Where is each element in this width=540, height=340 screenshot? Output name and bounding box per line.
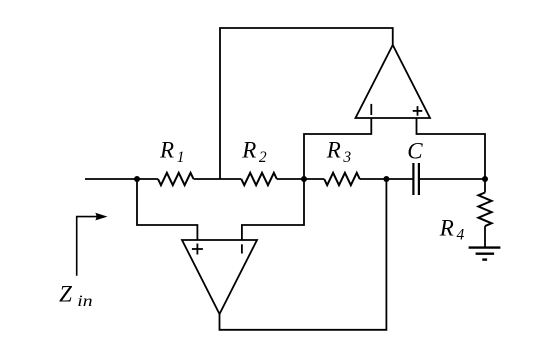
resistor R2 <box>241 137 277 185</box>
wire: U2 non-inverting input down-right to node D <box>417 118 486 179</box>
wire: feedback from op-amp U2 output to R1-R2 node <box>220 28 393 179</box>
node B (R2-R3 junction) <box>301 176 307 182</box>
svg-text:C: C <box>407 138 423 163</box>
op-amp U1 (bottom) <box>182 240 257 314</box>
op-amp U2 (top) <box>356 45 431 118</box>
ground <box>469 248 501 260</box>
svg-text:1: 1 <box>177 149 185 166</box>
svg-text:in: in <box>77 293 93 310</box>
svg-text:3: 3 <box>342 149 351 166</box>
svg-text:4: 4 <box>457 227 465 244</box>
wire: node C down and left to op-amp U1 output <box>220 179 387 330</box>
svg-text:R: R <box>439 215 454 240</box>
svg-text:R: R <box>241 137 256 162</box>
wire R3 to capacitor C <box>360 178 414 180</box>
wire C to node D <box>419 178 485 180</box>
svg-text:2: 2 <box>259 149 267 166</box>
wire R2 to node B <box>277 178 324 180</box>
svg-text:R: R <box>159 137 174 162</box>
node C (R3-C junction, to U1 output) <box>383 176 389 182</box>
svg-text:R: R <box>326 137 341 162</box>
resistor R1 <box>158 137 194 185</box>
wire: node A down and right to U1 non-inverting input <box>137 179 197 240</box>
svg-text:Z: Z <box>59 281 72 306</box>
resistor R4 <box>439 179 492 248</box>
wire R1 to R2 <box>194 178 242 180</box>
wire: input lead <box>85 178 158 180</box>
capacitor C <box>407 138 423 195</box>
node A (input / R1 left junction) <box>134 176 140 182</box>
arrow: input impedance indicator <box>77 213 108 276</box>
wire: U1 inverting input up-right to node B <box>242 179 304 240</box>
wire: U2 inverting input down-left to node B <box>304 118 371 179</box>
node D (C-R4 junction) <box>482 176 488 182</box>
resistor R3 <box>324 137 360 185</box>
